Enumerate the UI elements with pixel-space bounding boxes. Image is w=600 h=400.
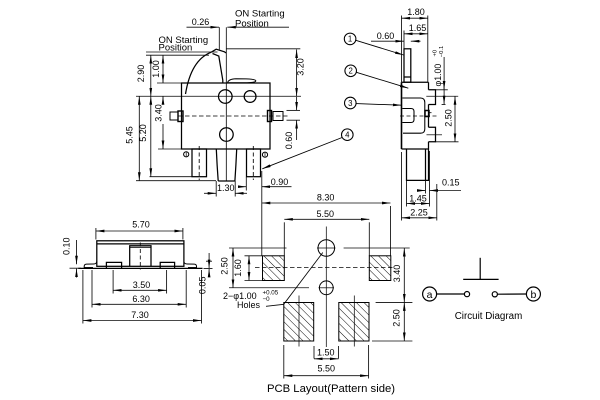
svg-text:Circuit Diagram: Circuit Diagram [455,311,523,322]
small rivet circle right [262,152,267,157]
hook foot contact right [188,267,197,269]
torsion spring blob on body top [228,79,256,83]
terminal tick [429,112,432,114]
dim 5.70 [96,230,183,232]
svg-text:b: b [530,289,536,301]
secondary hole (small circle) [244,91,256,103]
svg-text:0.60: 0.60 [377,31,395,41]
front view dimension texts [125,9,306,194]
PCB dashed centerline [255,267,395,269]
1.45 ext [406,181,408,207]
right foot tab [160,262,174,268]
side terminal leg [407,149,429,180]
svg-text:2.25: 2.25 [410,208,428,218]
hole label leader [266,253,323,307]
7.30 ext lines [82,270,84,324]
6.30 ext lines [91,270,93,308]
svg-text:Holes: Holes [237,300,261,310]
dim 2.50 right [403,302,405,341]
svg-text:+0: +0 [433,50,439,57]
left leg dashed centerline [198,146,200,180]
pad bottom left [284,303,314,342]
dim 5.50 bottom [284,375,369,377]
dim 8.30 [262,202,391,204]
right side nub outer [273,112,283,121]
0.05 ext ticks [206,260,212,262]
svg-text:8.30: 8.30 [317,193,335,203]
svg-text:3.40: 3.40 [392,265,402,283]
svg-text:0.26: 0.26 [192,17,210,27]
dim 1.80 ext lines [401,16,403,83]
boss pin 1 (phi 1.00) [429,90,436,105]
lever bottom tick [404,76,411,78]
balloon 2 [345,65,357,77]
right end hook terminal [184,262,197,269]
dim 7.30 [83,320,202,322]
right terminal leg [247,149,261,177]
svg-text:0.10: 0.10 [62,237,72,255]
lever (side) [404,49,411,82]
dim 5.50 top [284,218,369,220]
body left edge (thick) [401,82,403,149]
dim 3.20 [296,50,298,97]
terminal letters [427,289,537,301]
hook foot contact left [84,267,93,269]
0.60 outside arrows [296,97,298,111]
svg-text:3.50: 3.50 [133,280,151,290]
dim 1.00 [162,55,164,83]
lever top reference line [146,54,209,56]
pivot reference line through circle centers [136,95,301,97]
lever tip flag [211,49,226,53]
dim 1.50 [314,358,339,360]
dim 1.60 [248,256,250,281]
0.15 ext verticals [425,180,427,193]
dim 0.90 ext lines [245,177,247,191]
svg-text:0.05: 0.05 [197,277,207,295]
svg-text:1.60: 1.60 [233,259,243,277]
dim 5.45 [138,96,140,180]
svg-text:1.65: 1.65 [409,23,427,33]
left side nub inner (thick) [178,111,183,122]
1.50 ext lines [313,346,315,359]
lower hole circle [220,128,234,142]
svg-text:4: 4 [345,131,350,140]
ext body bottom left [158,148,182,150]
boss pin 2 [429,127,436,142]
PCB surface line [78,267,202,269]
contact point left [464,292,469,297]
body (cover) [97,241,184,266]
dim 0.60 side outside arrows [371,40,404,42]
leg inner line [425,149,427,180]
dim 1.65 ext [403,31,405,49]
dim 0.60 front: ext ticks [287,109,301,111]
svg-text:1.00: 1.00 [151,60,161,78]
svg-text:0.60: 0.60 [284,132,294,150]
hole center line top: left / through / right [229,247,287,249]
svg-text:5.50: 5.50 [317,209,335,219]
svg-text:2: 2 [349,67,353,76]
leg centerline left pad [298,296,300,347]
terminal a circle [423,287,437,301]
pad middle right [369,256,391,281]
dim 1.45 [407,203,430,205]
dim 2.50 side [454,96,456,142]
svg-text:3: 3 [348,99,352,108]
dim 3.40 pcb [403,248,405,302]
3.40 ext (pad top right) [376,301,413,303]
balloon 4 [342,129,354,141]
right side nub inner (thick) [268,111,272,122]
5.50 bottom ext lines [283,345,285,379]
0.15 outside arrows + tail [418,190,426,192]
svg-text:−0: −0 [263,296,271,303]
small rivet circle left [184,152,189,157]
right ON label underline + 0.26 right arrow [227,26,289,28]
bottom hole [319,281,333,295]
ext outer legs bottom [150,176,192,178]
svg-text:φ1.00: φ1.00 [433,64,443,87]
PCB vertical centerline [325,227,327,348]
dim 3.40 [162,96,164,102]
bottom hole center line [229,287,309,289]
dim 0.26 line [187,26,220,28]
stem dashed centerline [139,243,141,270]
actuator stem [479,258,481,280]
stem top second line [130,246,151,248]
dim 1.65 [404,33,428,35]
lever inner edge [213,54,223,84]
pad middle left [263,256,285,281]
svg-text:2.50: 2.50 [220,257,230,275]
svg-text:1.50: 1.50 [317,348,335,358]
left end hook terminal [84,262,97,269]
left side nub outer [170,112,178,120]
right leg dashed centerline [252,146,254,180]
svg-text:1.80: 1.80 [407,7,425,17]
internal pocket outline [402,98,425,133]
svg-text:1.45: 1.45 [409,194,427,204]
contact point right [492,292,497,297]
balloon 3 [345,97,357,109]
svg-text:Position: Position [159,43,193,54]
pivot hole (large circle) [219,90,233,104]
wire a to contact [437,293,465,295]
wire contact to b [497,293,526,295]
dim 2.25 [402,217,437,219]
side view texts [377,7,460,218]
top hole [318,240,335,257]
dim 6.30 [92,303,186,305]
2.50 right ext (pad bottom) [372,340,412,342]
side dashed centerline [400,115,437,117]
pad bottom right [339,303,369,342]
0.10 ext tick [70,267,82,269]
center stem block [130,246,151,266]
8.30 right ext [390,206,392,256]
phi dim ext lines [436,89,448,91]
1.60 ext ticks [245,255,263,257]
svg-text:3.20: 3.20 [296,58,306,76]
dim 2.90 [150,55,152,96]
svg-text:a: a [427,289,433,301]
5.70 ext lines [95,228,97,240]
leg centerline right pad [353,296,355,347]
contact terminal (dark) [425,111,429,117]
svg-text:2.90: 2.90 [136,65,146,83]
svg-text:Position: Position [235,18,269,29]
svg-text:5.70: 5.70 [132,220,150,230]
0.10 outside arrows [76,240,78,264]
balloon 1 [344,33,356,45]
0.05 outside arrows [208,253,210,268]
svg-text:3.40: 3.40 [153,104,163,122]
svg-text:6.30: 6.30 [132,294,150,304]
svg-text:PCB Layout(Pattern side): PCB Layout(Pattern side) [267,383,395,395]
1.30 outside arrows [204,192,216,194]
svg-text:0.15: 0.15 [442,178,460,188]
cover top inner line [97,243,184,245]
dim 5.20 [150,96,152,176]
lever arc (left flank) [186,52,212,94]
dim 1.80 [402,17,428,19]
svg-text:5.20: 5.20 [138,124,148,142]
svg-text:5.45: 5.45 [125,126,135,144]
vertical centerline through lever shaft, body and center terminal [225,27,227,181]
left terminal leg [192,149,207,177]
body top edge [402,81,429,83]
3.50 ext lines [112,270,114,294]
pivot line ext (side) [426,95,458,97]
terminal b circle [526,287,540,301]
dim 3.50 [113,289,167,291]
left foot tab [106,262,121,268]
2.25 ext lines [401,152,403,221]
pin2 bottom ext [436,141,459,143]
ext center leg bottom [136,180,216,182]
svg-text:2.50: 2.50 [392,309,402,327]
dim 1.30 ext lines [215,181,217,197]
ext line lever corner [218,27,220,49]
pusher bump [402,109,414,123]
ext lever flag top right [226,48,300,50]
dim 2.50 left [232,248,234,288]
callout balloons [262,33,408,169]
svg-text:0.90: 0.90 [271,177,289,187]
left ON label underline [146,51,218,53]
horizontal dashed centerline [178,115,290,117]
svg-text:5.50: 5.50 [318,364,336,374]
svg-text:1.30: 1.30 [217,183,235,193]
5.50 top ext lines [283,222,285,256]
body bottom edge [402,148,429,150]
switch body outline [182,83,271,149]
svg-text:1: 1 [348,35,352,44]
svg-text:7.30: 7.30 [131,310,149,320]
body right edge segments [428,82,430,149]
svg-text:−0.1: −0.1 [439,46,445,57]
actuator bar [463,278,498,280]
center terminal leg [216,149,236,181]
phi dim arrows [443,57,445,104]
pin2 mid tick [427,134,443,136]
0.90 outside arrows + tail [240,186,247,188]
svg-text:2.50: 2.50 [444,109,454,127]
ext body top left [157,82,182,84]
